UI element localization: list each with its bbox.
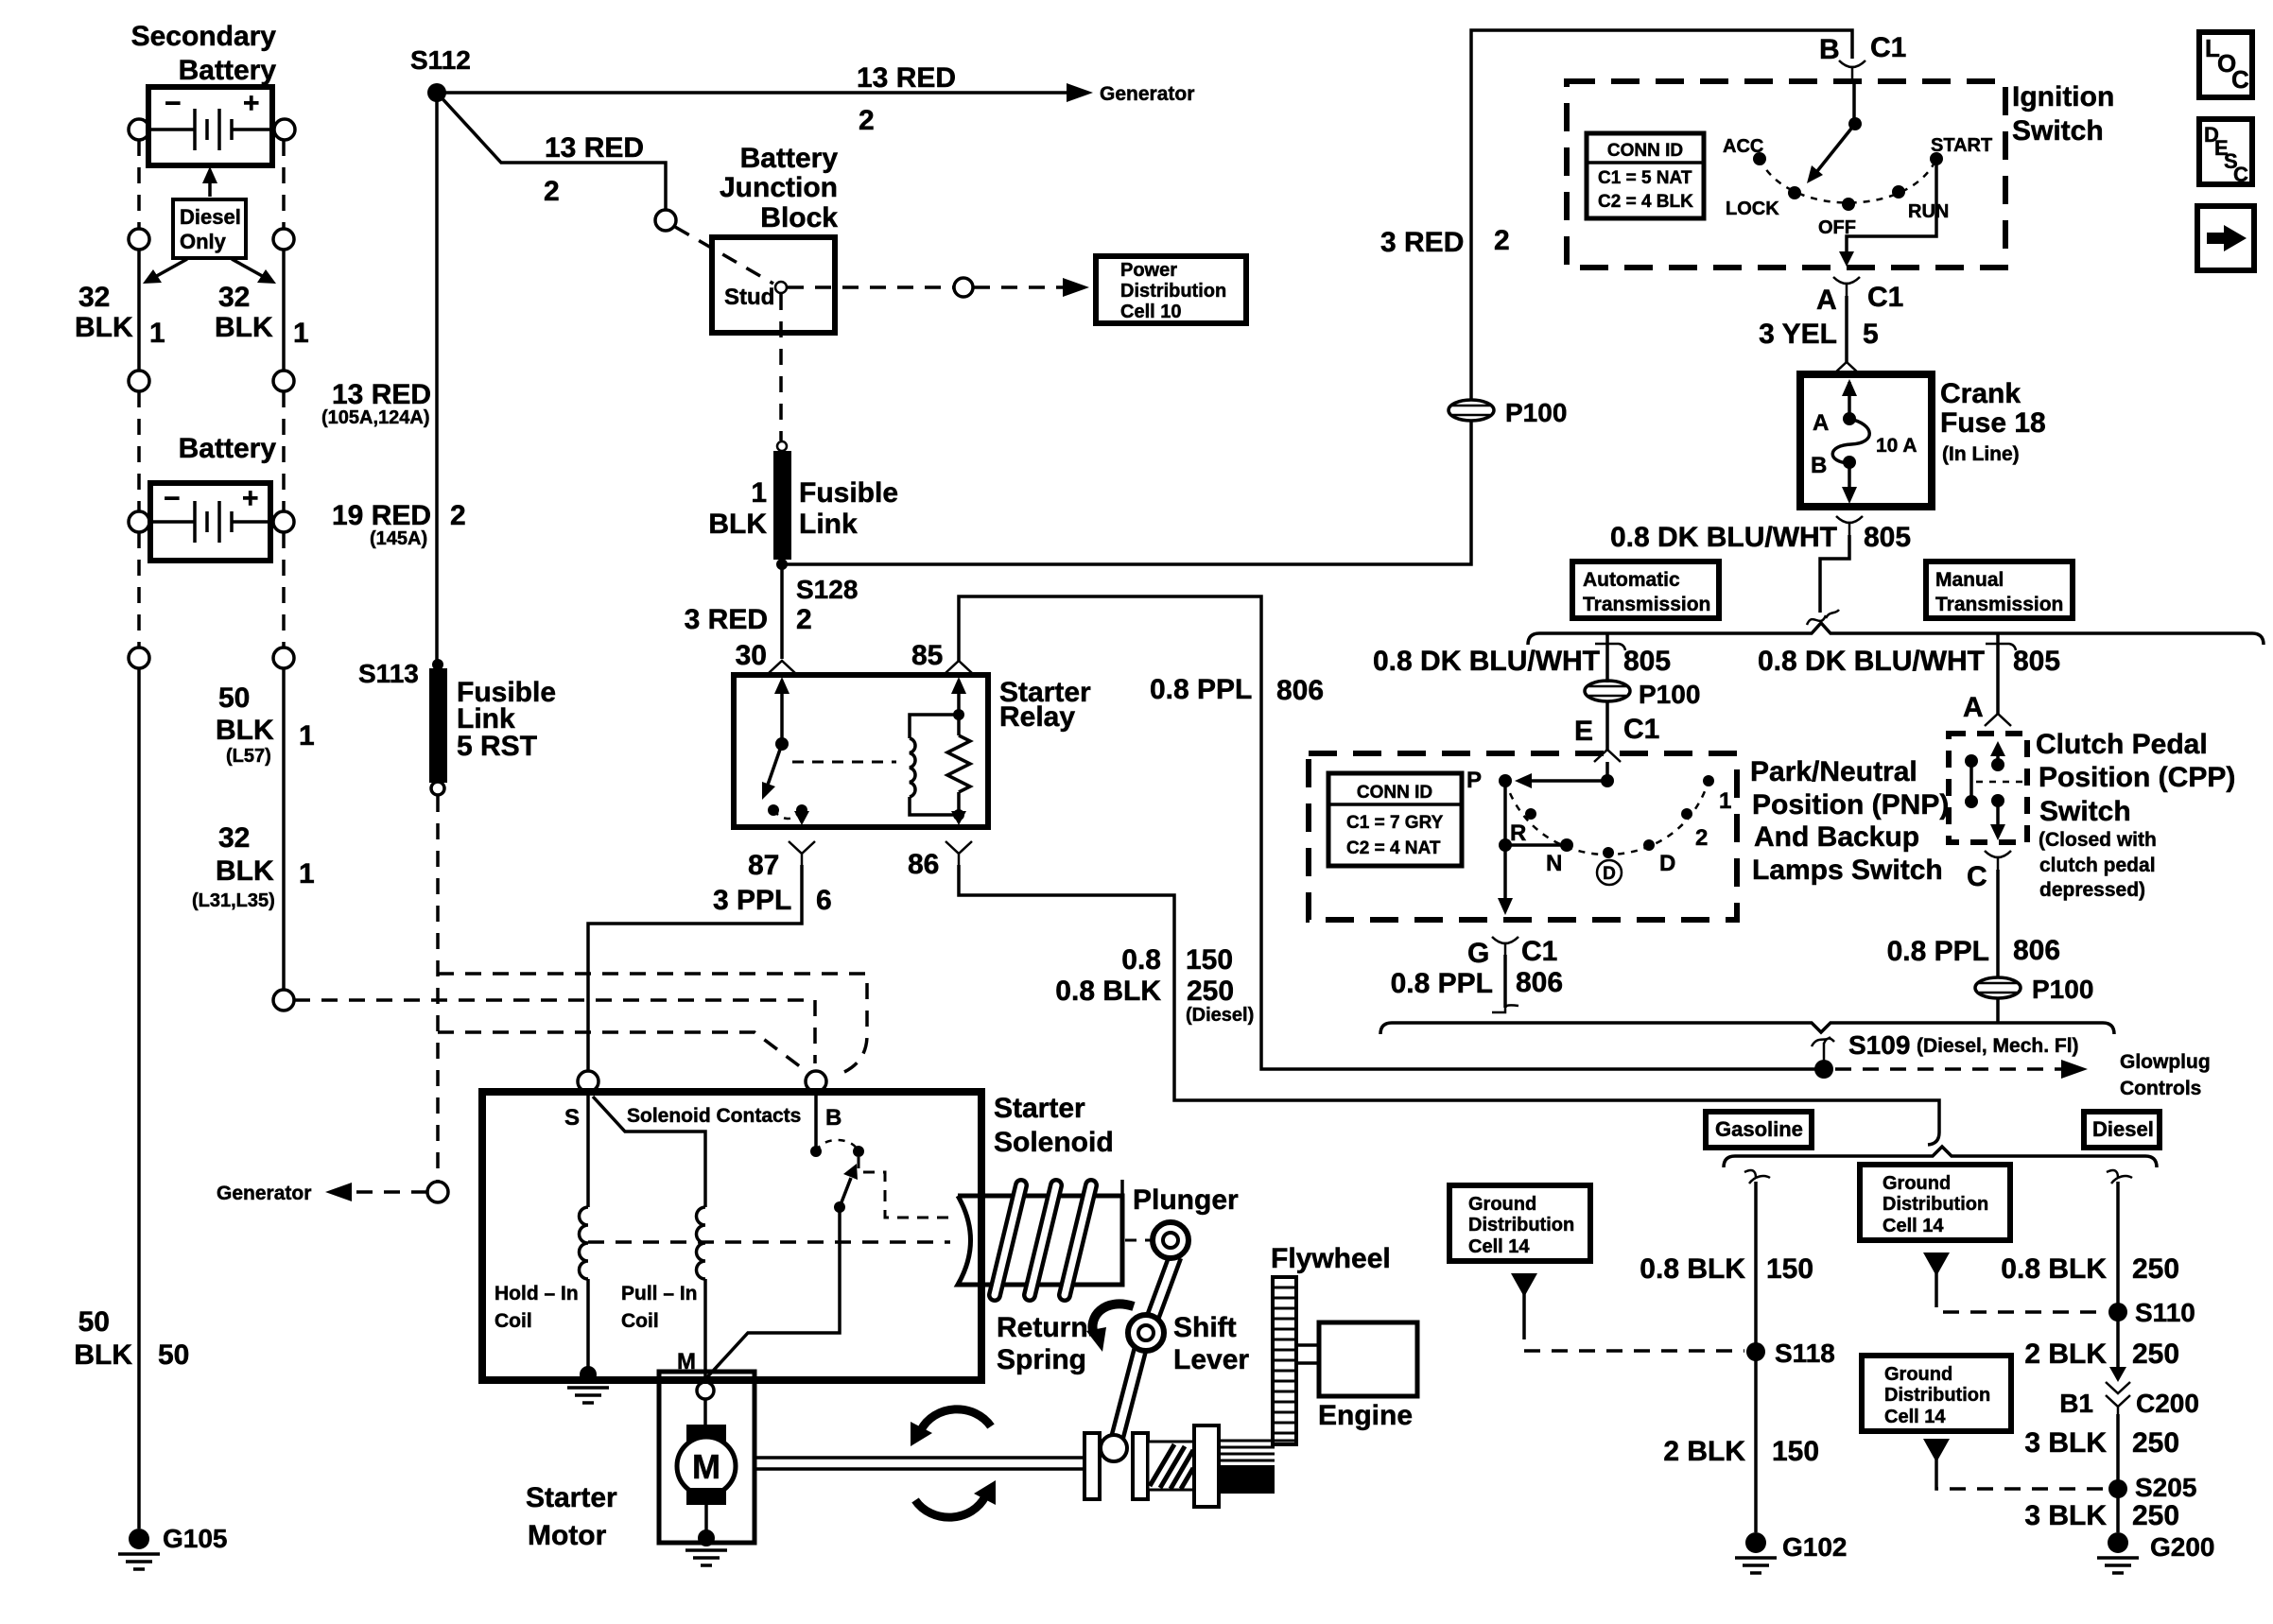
svg-text:−: −	[164, 483, 181, 514]
transmission split brace	[1528, 623, 2264, 645]
connector chevron E C1	[1594, 750, 1621, 762]
svg-text:Solenoid Contacts: Solenoid Contacts	[627, 1105, 801, 1127]
label Starter Motor	[526, 1482, 617, 1551]
svg-text:Switch: Switch	[2039, 796, 2131, 827]
svg-text:B: B	[1819, 34, 1840, 65]
drive pinion	[1219, 1441, 1275, 1494]
arrowhead generator	[1067, 83, 1093, 102]
svg-text:5 RST: 5 RST	[457, 731, 537, 762]
svg-text:S: S	[564, 1105, 580, 1131]
svg-text:(L57): (L57)	[226, 746, 271, 767]
label 3 YEL 5	[1759, 319, 1879, 350]
ignition dashed arc	[1760, 159, 1936, 203]
label B C1	[1819, 32, 1906, 65]
svg-text:Battery: Battery	[740, 143, 839, 174]
svg-text:50: 50	[218, 682, 250, 714]
svg-text:M: M	[692, 1447, 720, 1486]
svg-text:0.8 BLK: 0.8 BLK	[1640, 1253, 1745, 1285]
svg-text:CONN ID: CONN ID	[1357, 783, 1432, 803]
svg-text:Secondary: Secondary	[131, 21, 277, 52]
svg-text:B1: B1	[2059, 1389, 2093, 1418]
gasoline branch squiggle	[1744, 1170, 1770, 1183]
label 0.8 PPL 806 C	[1887, 935, 2060, 967]
fusible link 1 BLK	[773, 441, 791, 560]
wire P100 to lower brace	[1996, 998, 2000, 1023]
node circle right mid	[273, 648, 294, 668]
PNP P contact and selector	[1498, 774, 1573, 915]
svg-text:S128: S128	[796, 575, 858, 604]
wire S128 to relay pin 30	[780, 564, 784, 659]
svg-text:C: C	[2233, 163, 2248, 186]
battery polarity labels	[164, 483, 259, 514]
node circle right upper	[273, 229, 294, 250]
terminal S circle	[578, 1071, 599, 1092]
svg-text:87: 87	[748, 850, 779, 881]
wire START output	[1839, 159, 1936, 267]
Manual Transmission box	[1926, 561, 2073, 618]
connector chevron pin 85	[946, 661, 972, 673]
dashed wire tee to solenoid B diagonal	[438, 1032, 808, 1073]
svg-text:Engine: Engine	[1318, 1400, 1413, 1431]
node S109	[1814, 1060, 1833, 1079]
svg-text:Cell 10: Cell 10	[1120, 302, 1181, 322]
svg-text:A: A	[1813, 410, 1829, 436]
label 0.8 DK BLU/WHT 805 auto	[1373, 646, 1671, 677]
svg-text:13 RED: 13 RED	[545, 132, 644, 164]
connector chevron pin 86	[946, 841, 972, 865]
svg-text:30: 30	[736, 640, 767, 671]
label 1 BLK Fusible Link	[708, 477, 898, 540]
relay resistor branch	[947, 677, 970, 825]
secondary battery box	[148, 87, 272, 165]
svg-text:2 BLK: 2 BLK	[1663, 1436, 1745, 1467]
wire diesel branch lower	[2116, 1414, 2120, 1532]
secondary battery polarity labels	[165, 88, 260, 119]
ignition switch dashed box	[1567, 81, 2005, 268]
label 0.8 DK BLU/WHT 805 manual	[1758, 646, 2060, 677]
svg-text:3 YEL: 3 YEL	[1759, 319, 1837, 350]
wire P100 up and over to ignition B	[1471, 30, 1852, 401]
svg-text:Ground: Ground	[1883, 1173, 1951, 1194]
svg-text:Transmission: Transmission	[1935, 594, 2063, 615]
svg-text:ACC: ACC	[1723, 136, 1763, 157]
shift lever rod upper	[1153, 1256, 1175, 1318]
svg-text:150: 150	[1766, 1253, 1813, 1285]
Gasoline box	[1706, 1112, 1812, 1148]
hold-in coil	[580, 1207, 589, 1279]
svg-text:Controls: Controls	[2120, 1078, 2201, 1099]
wire 50 BLK / 32 BLK segment	[282, 668, 286, 990]
svg-text:Starter: Starter	[994, 1093, 1085, 1124]
svg-text:S113: S113	[358, 659, 419, 688]
svg-text:C2 = 4 NAT: C2 = 4 NAT	[1346, 838, 1441, 858]
svg-text:B: B	[825, 1105, 842, 1131]
svg-text:E: E	[1574, 716, 1593, 747]
svg-text:Coil: Coil	[495, 1310, 532, 1332]
svg-text:(Closed with: (Closed with	[2039, 829, 2157, 851]
dashed wire to S118	[1524, 1323, 1744, 1351]
dashed centerline to shift lever	[1125, 1239, 1154, 1242]
label G C1	[1467, 936, 1557, 969]
svg-text:Gasoline: Gasoline	[1715, 1117, 1803, 1141]
svg-text:S110: S110	[2135, 1298, 2195, 1327]
svg-text:Crank: Crank	[1940, 378, 2021, 409]
svg-text:depressed): depressed)	[2039, 879, 2145, 901]
svg-text:0.8 BLK: 0.8 BLK	[2001, 1253, 2107, 1285]
secondary battery symbol	[151, 109, 269, 150]
svg-text:0.8 PPL: 0.8 PPL	[1150, 674, 1252, 705]
shift lever rod lower	[1117, 1349, 1140, 1440]
svg-text:1: 1	[1719, 788, 1731, 814]
svg-text:5: 5	[1863, 319, 1879, 350]
svg-text:Ignition: Ignition	[2012, 81, 2114, 112]
svg-text:Hold – In: Hold – In	[495, 1283, 579, 1304]
label 50 BLK (L57) 1	[216, 682, 315, 767]
fuse pin labels	[1811, 410, 1917, 478]
wire 0.8 BLK relay 86 to gasoline-diesel split	[959, 865, 1939, 1145]
node circle power distribution	[954, 278, 973, 297]
svg-text:S109: S109	[1848, 1030, 1910, 1060]
svg-text:250: 250	[2132, 1427, 2179, 1459]
solenoid moving contact	[705, 1164, 858, 1379]
wire fuse to split brace	[1820, 535, 1849, 613]
svg-text:805: 805	[1864, 522, 1911, 553]
svg-text:Ground: Ground	[1468, 1194, 1536, 1215]
svg-text:Distribution: Distribution	[1120, 281, 1226, 302]
svg-text:13 RED: 13 RED	[857, 62, 956, 94]
connector G wire end	[1492, 1005, 1518, 1012]
dashed wire stud to power distribution	[788, 285, 953, 289]
label 2 BLK 150	[1663, 1436, 1819, 1467]
motor symbol	[677, 1399, 736, 1535]
wire 0.8 PPL relay 85 riser	[959, 596, 1815, 1069]
svg-text:R: R	[1510, 821, 1526, 846]
svg-text:C: C	[1967, 861, 1987, 892]
wire 3 YEL	[1845, 296, 1848, 362]
label 0.8 DK BLU/WHT 805 fuse	[1610, 522, 1911, 553]
wire S112 to generator	[437, 91, 1076, 95]
label B1 C200	[2059, 1389, 2199, 1418]
next-page arrow box	[2197, 206, 2254, 270]
node S110	[2108, 1303, 2127, 1322]
Ground Distribution Cell 14 box gasoline	[1449, 1185, 1590, 1261]
svg-text:1: 1	[751, 477, 767, 509]
label Starter Solenoid	[994, 1093, 1114, 1158]
label Secondary Battery	[131, 21, 277, 86]
wire G to lower brace	[1503, 955, 1507, 1008]
svg-text:Coil: Coil	[621, 1310, 659, 1332]
svg-text:BLK: BLK	[216, 855, 274, 887]
svg-text:Power: Power	[1120, 260, 1177, 281]
label 50 BLK 50	[74, 1306, 189, 1371]
svg-text:Diesel: Diesel	[180, 205, 241, 229]
split squiggle lower	[1812, 1037, 1834, 1061]
svg-text:32: 32	[218, 282, 250, 313]
node circle junction block feed	[655, 210, 676, 231]
CPP dashed box	[1949, 734, 2027, 842]
arrow Diesel Only to right battery lead	[232, 259, 276, 284]
svg-text:2: 2	[1695, 825, 1708, 851]
dashed wire from node to solenoid B	[294, 1000, 815, 1063]
label Starter Relay	[999, 677, 1091, 733]
wire auto branch	[1605, 633, 1609, 682]
svg-text:Cell 14: Cell 14	[1884, 1407, 1946, 1427]
plunger coil turn 2	[1030, 1185, 1056, 1295]
svg-text:C1: C1	[1867, 282, 1903, 313]
svg-text:S112: S112	[410, 45, 471, 75]
svg-text:Shift: Shift	[1173, 1312, 1237, 1343]
wire right dashed battery lead	[282, 140, 286, 229]
node S112	[427, 83, 446, 102]
wire S to pull-in coil	[593, 1097, 705, 1207]
label S109 (Diesel, Mech. Fl)	[1848, 1030, 2079, 1060]
wire 3 PPL relay 87 to solenoid S	[588, 865, 802, 1070]
battery symbol	[153, 501, 268, 543]
svg-text:START: START	[1931, 135, 1992, 156]
wire S128 to P100 riser	[782, 420, 1471, 564]
svg-text:BLK: BLK	[74, 1339, 132, 1371]
svg-text:Battery: Battery	[179, 433, 277, 464]
node circle left upper	[129, 229, 149, 250]
node circle generator bottom	[427, 1182, 448, 1202]
connector G C1	[1492, 937, 1518, 955]
svg-text:C1: C1	[1623, 714, 1659, 745]
svg-text:2: 2	[450, 500, 466, 531]
ground distribution arrow diesel upper	[1923, 1253, 1950, 1291]
drive helix spline	[1148, 1442, 1194, 1490]
Power Distribution Cell 10 box	[1096, 256, 1246, 323]
svg-text:85: 85	[911, 640, 943, 671]
svg-text:Junction: Junction	[720, 172, 838, 203]
svg-text:50: 50	[158, 1339, 189, 1371]
stud circle	[775, 282, 787, 293]
svg-text:C200: C200	[2136, 1389, 2199, 1418]
fusible link S113	[429, 659, 447, 795]
svg-text:+: +	[243, 88, 260, 119]
svg-text:C: C	[2231, 65, 2249, 94]
wire hold-in coil top	[586, 1092, 590, 1207]
svg-text:CONN ID: CONN ID	[1607, 141, 1683, 161]
svg-text:Position (PNP): Position (PNP)	[1752, 789, 1949, 821]
connector A C1	[1833, 277, 1860, 296]
svg-text:86: 86	[908, 849, 939, 880]
svg-text:G105: G105	[163, 1524, 228, 1553]
svg-text:Automatic: Automatic	[1583, 569, 1680, 591]
ignition position dots	[1753, 152, 1943, 211]
svg-text:Flywheel: Flywheel	[1271, 1243, 1391, 1274]
svg-text:Cell 14: Cell 14	[1883, 1216, 1944, 1236]
label 3 BLK 250 lower	[2024, 1500, 2179, 1531]
drive disc 2	[1133, 1433, 1148, 1499]
terminal M circle	[697, 1382, 714, 1399]
svg-text:250: 250	[2132, 1253, 2179, 1285]
split squiggle upper	[1807, 610, 1839, 625]
PNP position labels	[1466, 768, 1731, 876]
svg-text:LOCK: LOCK	[1726, 199, 1779, 219]
svg-text:50: 50	[78, 1306, 110, 1338]
svg-text:P100: P100	[1639, 680, 1700, 709]
label 0.8 BLK 150 gasoline	[1640, 1253, 1813, 1285]
label 13 RED 2 top	[857, 62, 956, 136]
svg-text:250: 250	[1187, 976, 1234, 1007]
label Hold-In Coil	[495, 1283, 579, 1332]
solenoid contact B fixed	[810, 1092, 864, 1157]
node circle right lower	[273, 371, 294, 391]
connector chevron pin 87	[789, 841, 815, 865]
label 3 PPL 6	[713, 885, 832, 916]
diesel branch squiggle	[2107, 1170, 2132, 1183]
connector C CPP	[1985, 851, 2011, 870]
secondary battery terminal circles	[129, 119, 149, 140]
svg-text:1: 1	[293, 318, 309, 349]
pull-in coil	[697, 1207, 706, 1279]
wire S112 down to S113	[435, 93, 439, 662]
svg-text:Glowplug: Glowplug	[2120, 1051, 2211, 1073]
wire hold-in coil to ground	[586, 1279, 590, 1371]
dashed diagonal to stud	[675, 227, 773, 284]
svg-text:+: +	[242, 483, 259, 514]
svg-text:Only: Only	[180, 230, 227, 253]
svg-text:RUN: RUN	[1908, 201, 1949, 222]
label A C1	[1816, 282, 1903, 316]
svg-text:1: 1	[299, 858, 315, 890]
svg-text:Distribution: Distribution	[1884, 1385, 1990, 1406]
dashed wire S109 to glowplug	[1835, 1060, 2088, 1079]
wire right dashed below battery	[282, 532, 286, 648]
connector auto branch top	[1595, 644, 1625, 662]
svg-text:And Backup: And Backup	[1754, 821, 1919, 853]
svg-text:1: 1	[149, 318, 165, 349]
label Fusible Link 5 RST	[457, 677, 556, 762]
connector P100 auto	[1585, 681, 1630, 701]
ground G200	[2097, 1532, 2139, 1573]
relay pin 30 arm	[762, 677, 789, 800]
plunger coil turn 1	[995, 1185, 1021, 1295]
svg-text:C1 = 5 NAT: C1 = 5 NAT	[1598, 168, 1692, 188]
label Ignition Switch	[2012, 81, 2114, 147]
svg-text:(In Line): (In Line)	[1942, 443, 2020, 465]
svg-text:BLK: BLK	[75, 312, 133, 343]
svg-text:Starter: Starter	[526, 1482, 617, 1513]
wire right dashed to battery	[282, 391, 286, 511]
svg-text:Distribution: Distribution	[1883, 1194, 1988, 1215]
svg-text:2: 2	[1494, 225, 1510, 256]
label Clutch Pedal Position (CPP) Switch	[2036, 729, 2235, 901]
svg-text:G: G	[1467, 938, 1489, 969]
svg-text:Diesel: Diesel	[2092, 1117, 2154, 1141]
svg-text:0.8 BLK: 0.8 BLK	[1055, 976, 1161, 1007]
connector chevron pin 30	[769, 661, 795, 673]
label 3 RED 2	[1380, 225, 1510, 258]
connector P100 main	[1449, 400, 1494, 421]
wire manual branch	[1996, 633, 2000, 714]
svg-text:2: 2	[796, 604, 812, 635]
svg-text:250: 250	[2132, 1500, 2179, 1531]
label 2 BLK 250	[2024, 1339, 2179, 1370]
svg-text:1: 1	[299, 720, 315, 752]
svg-text:3 RED: 3 RED	[685, 604, 768, 635]
svg-text:P100: P100	[2032, 975, 2093, 1004]
svg-text:Position (CPP): Position (CPP)	[2039, 762, 2235, 793]
svg-text:0.8: 0.8	[1121, 944, 1161, 976]
svg-text:D: D	[1659, 851, 1675, 876]
node S118	[1746, 1342, 1765, 1361]
dashed wire S113 tee to solenoid B upper	[438, 974, 867, 1072]
svg-text:0.8 PPL: 0.8 PPL	[1887, 936, 1989, 967]
svg-text:6: 6	[816, 885, 832, 916]
svg-text:−: −	[165, 88, 182, 119]
wire left dashed below battery	[137, 532, 141, 648]
label 32 BLK 1 right	[215, 282, 309, 349]
label E C1	[1574, 714, 1659, 747]
Ground Distribution Cell 14 box diesel lower	[1862, 1356, 2011, 1431]
connector chevron fuse top	[1833, 362, 1860, 374]
flywheel gear	[1273, 1277, 1296, 1444]
svg-text:Relay: Relay	[999, 701, 1075, 733]
svg-text:Battery: Battery	[179, 55, 277, 86]
arrow Diesel Only to left battery lead	[143, 259, 187, 284]
LOC box	[2199, 32, 2252, 97]
connector fuse bottom	[1836, 516, 1863, 535]
svg-text:Spring: Spring	[997, 1344, 1086, 1375]
svg-text:Ground: Ground	[1884, 1364, 1952, 1385]
svg-text:Cell 14: Cell 14	[1468, 1236, 1530, 1257]
starter relay box	[734, 675, 988, 827]
shift lever ball	[1101, 1435, 1127, 1461]
dashed contact to plunger	[859, 1157, 950, 1218]
dashed wire stud down to fusible link	[779, 294, 783, 441]
drive disc 1	[1084, 1433, 1100, 1499]
wire pull-in coil to M	[703, 1279, 707, 1382]
svg-text:P: P	[1466, 768, 1482, 793]
dashed wire to generator arrow	[342, 1190, 427, 1194]
svg-text:Switch: Switch	[2012, 115, 2104, 147]
svg-text:(Diesel, Mech. Fl): (Diesel, Mech. Fl)	[1917, 1035, 2079, 1057]
arrow Diesel Only to secondary battery	[202, 166, 217, 197]
wire C to P100	[1996, 870, 2000, 977]
PNP dashed arc	[1505, 781, 1709, 855]
svg-text:S205: S205	[2135, 1473, 2196, 1502]
svg-text:(105A,124A): (105A,124A)	[321, 407, 430, 428]
node S128	[776, 559, 788, 570]
svg-text:Manual: Manual	[1935, 569, 2004, 591]
PNP circled D	[1597, 860, 1622, 885]
svg-text:A: A	[1963, 692, 1984, 723]
node circle left	[129, 648, 149, 668]
svg-text:3 BLK: 3 BLK	[2024, 1500, 2107, 1531]
label 3 BLK 250 upper	[2024, 1427, 2179, 1459]
wire left dashed battery lead	[137, 140, 141, 229]
svg-text:G102: G102	[1782, 1532, 1848, 1562]
label 0.8 150 / 0.8 BLK 250 (Diesel)	[1055, 944, 1254, 1026]
wire right 32 BLK segment	[282, 250, 286, 371]
svg-text:10 A: 10 A	[1876, 435, 1917, 457]
label 32 BLK (L31,L35) 1	[192, 822, 315, 911]
connector P100 C	[1975, 977, 2021, 998]
svg-text:BLK: BLK	[216, 715, 274, 746]
label Shift Lever	[1173, 1312, 1249, 1375]
label Pull-In Coil	[621, 1283, 698, 1332]
label S128 2	[796, 575, 858, 635]
Automatic Transmission box	[1572, 561, 1719, 618]
arrowhead generator bottom	[325, 1183, 352, 1201]
label Glowplug Controls	[2120, 1051, 2211, 1099]
svg-text:S118: S118	[1775, 1339, 1835, 1368]
label Return Spring	[997, 1312, 1088, 1375]
svg-text:BLK: BLK	[215, 312, 273, 343]
engine box	[1319, 1322, 1417, 1396]
wire left 32 BLK segment	[137, 250, 141, 371]
